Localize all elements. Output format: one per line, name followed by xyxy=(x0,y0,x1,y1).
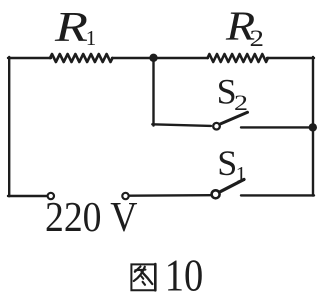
label R1 xyxy=(54,5,96,51)
node junction top (R1/R2/S2 branch) xyxy=(149,54,157,62)
source terminal right xyxy=(122,193,128,199)
svg-text:S: S xyxy=(217,143,237,183)
switch S2 pivot xyxy=(213,123,220,130)
resistor R1 xyxy=(50,54,113,62)
label S1 xyxy=(217,143,246,186)
switch S1 pivot xyxy=(212,190,220,198)
wire left vertical xyxy=(8,57,10,196)
wire S2 fixed side xyxy=(241,126,314,128)
svg-text:10: 10 xyxy=(165,250,204,299)
switch S2 lever xyxy=(220,112,247,124)
svg-text:1: 1 xyxy=(86,26,97,50)
wire S1 fixed side xyxy=(241,194,314,196)
svg-text:220 V: 220 V xyxy=(45,194,138,241)
wire right vertical xyxy=(312,57,314,196)
label S2 xyxy=(217,72,248,115)
switch S1 lever xyxy=(220,179,244,191)
label R2 xyxy=(225,3,264,52)
caption glyph 图 xyxy=(131,264,155,290)
source terminal left xyxy=(48,193,54,199)
resistor R2 xyxy=(208,54,269,62)
svg-text:1: 1 xyxy=(236,162,247,186)
wire top left segment xyxy=(8,57,51,59)
wire bottom middle xyxy=(130,194,211,197)
svg-text:2: 2 xyxy=(234,90,248,115)
svg-text:2: 2 xyxy=(250,26,265,51)
wire S2 branch horizontal xyxy=(152,124,211,126)
wire bottom left xyxy=(8,195,47,197)
svg-text:R: R xyxy=(54,5,88,51)
wire top right segment xyxy=(267,57,314,59)
wire top middle segment xyxy=(112,57,208,59)
node junction right (S2/right wire) xyxy=(309,123,317,131)
wire S2 branch vertical xyxy=(152,58,154,126)
